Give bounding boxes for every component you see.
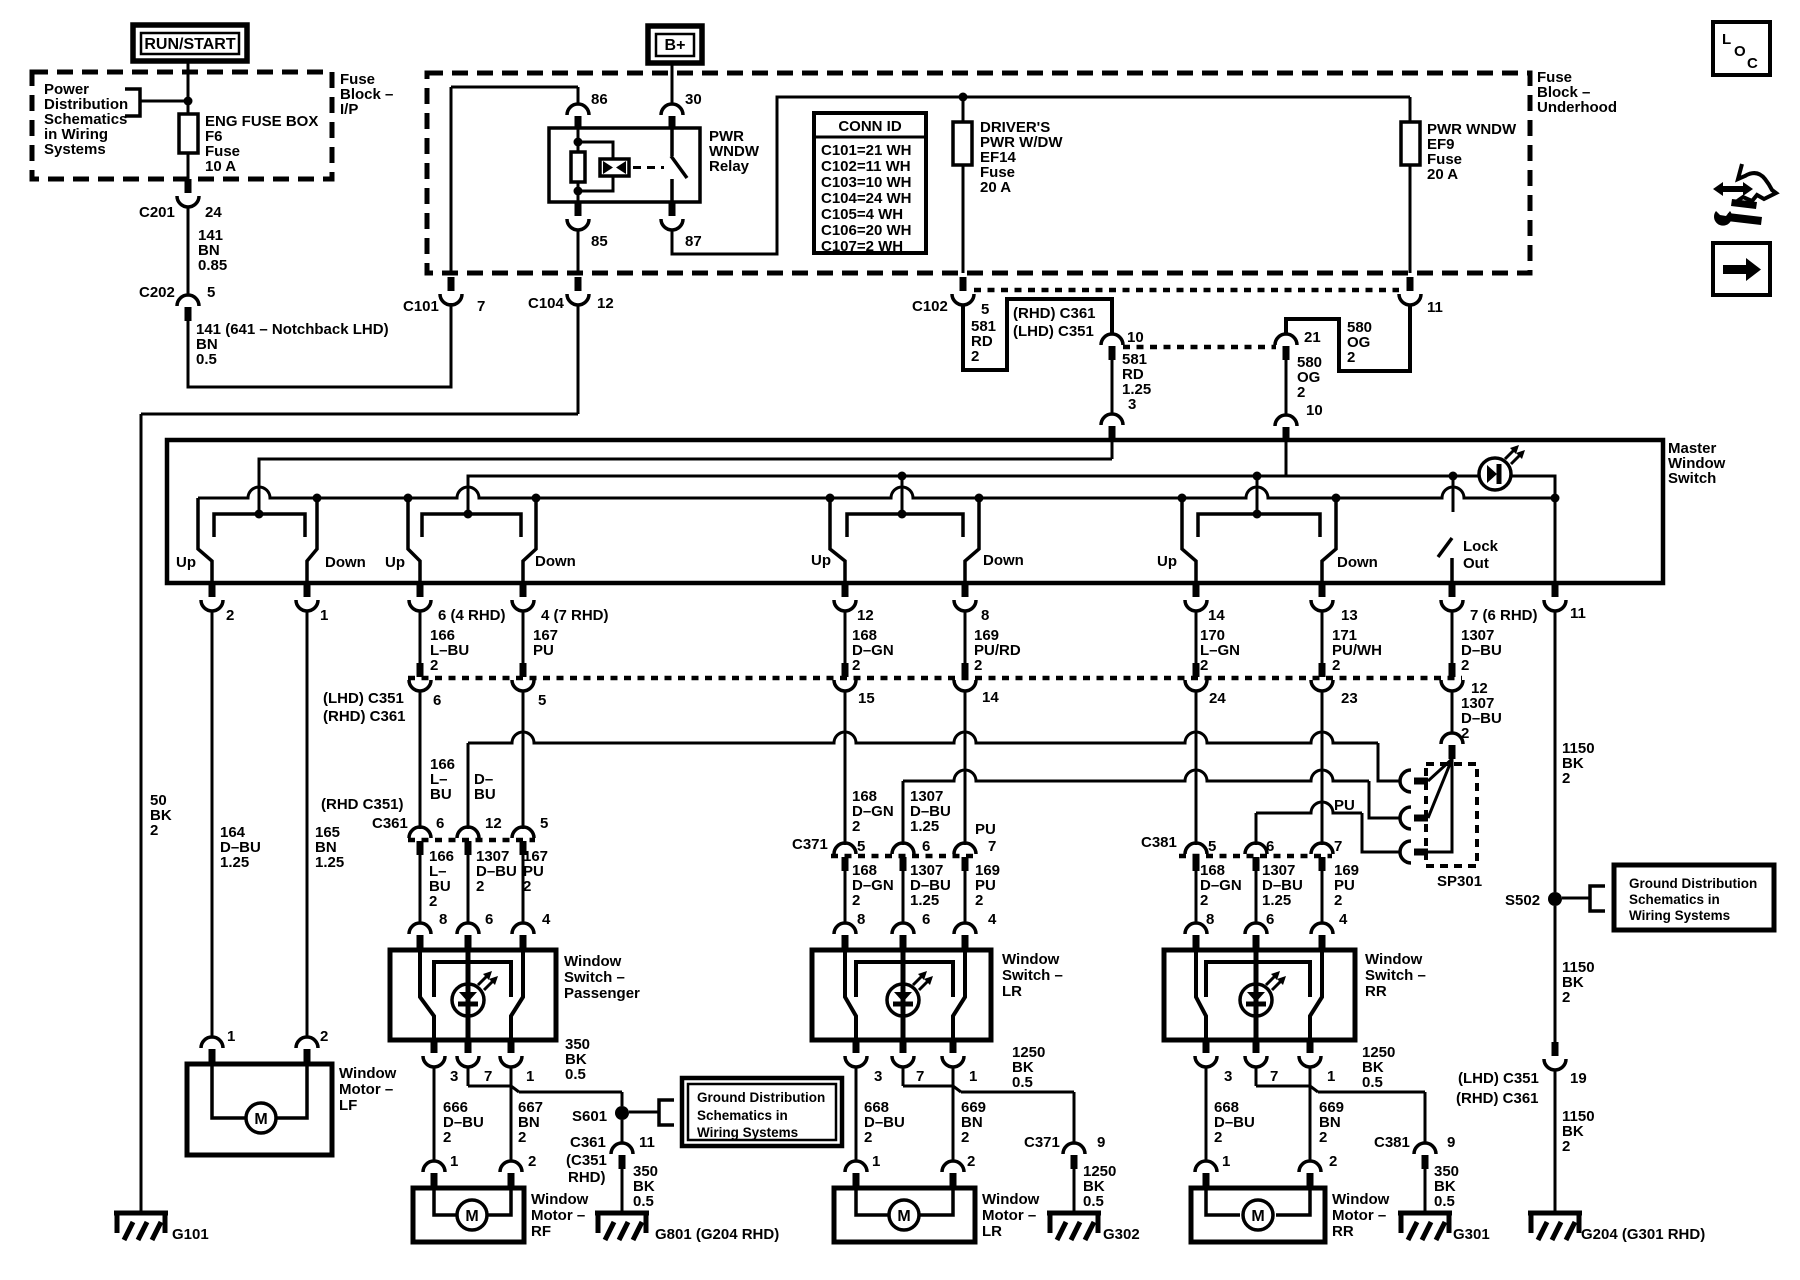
- svg-text:C105=4 WH: C105=4 WH: [821, 206, 903, 223]
- svg-text:Motor –: Motor –: [339, 1081, 393, 1098]
- master switch pin 14 connector: [1193, 583, 1200, 597]
- svg-text:C361: C361: [570, 1134, 606, 1151]
- wire 169 PU/RD 2: [964, 611, 967, 663]
- svg-text:2: 2: [150, 822, 158, 839]
- window switch RR entry pin 6: [1245, 923, 1267, 934]
- svg-text:0.5: 0.5: [1362, 1074, 1383, 1091]
- svg-text:C107=2 WH: C107=2 WH: [821, 238, 903, 255]
- svg-text:LR: LR: [982, 1223, 1002, 1240]
- RR switch pin 1 connector: [1307, 1040, 1314, 1053]
- svg-text:Schematics in: Schematics in: [1629, 892, 1720, 907]
- svg-text:14: 14: [1208, 607, 1225, 624]
- svg-text:C102: C102: [912, 298, 948, 315]
- svg-text:(RHD C351): (RHD C351): [321, 796, 404, 813]
- svg-text:Window: Window: [339, 1065, 397, 1082]
- svg-text:3: 3: [1128, 396, 1136, 413]
- svg-text:C381: C381: [1374, 1134, 1410, 1151]
- svg-text:Window: Window: [564, 953, 622, 970]
- wire 169 PU 2 to LR pin 4: [964, 871, 967, 924]
- svg-text:7: 7: [1334, 838, 1342, 855]
- master switch pin 6 connector: [417, 583, 424, 597]
- svg-text:21: 21: [1304, 329, 1321, 346]
- svg-text:11: 11: [1570, 605, 1586, 622]
- fuse F6 10A: [179, 114, 198, 153]
- window motor LR entry pin 1: [845, 1161, 867, 1172]
- svg-text:2: 2: [226, 607, 234, 624]
- window switch - LR: [812, 950, 991, 1040]
- svg-text:Motor –: Motor –: [1332, 1207, 1386, 1224]
- svg-text:0.5: 0.5: [1012, 1074, 1033, 1091]
- wire EF14 to C102: [962, 165, 965, 273]
- svg-text:2: 2: [1332, 657, 1340, 674]
- wire relay pin 85 to C104: [577, 230, 580, 273]
- relay coil resistor: [571, 152, 585, 182]
- wire 1250 BK 0.5 from RR pin 7: [1255, 1067, 1258, 1086]
- svg-text:0.5: 0.5: [1434, 1193, 1455, 1210]
- svg-text:1.25: 1.25: [1122, 381, 1151, 398]
- svg-text:1: 1: [227, 1028, 235, 1045]
- connector C201 pin 24: [185, 179, 192, 193]
- note box ground distribution S601: [682, 1078, 842, 1146]
- passenger switch pin 1 connector: [508, 1040, 515, 1053]
- svg-text:6: 6: [922, 911, 930, 928]
- svg-text:2: 2: [852, 657, 860, 674]
- switch 2 feed and contact bar: [467, 476, 470, 514]
- lock out switch: [1452, 476, 1455, 512]
- svg-text:BU: BU: [474, 786, 496, 803]
- power source tag B+: [648, 26, 702, 63]
- switch 3 Down blade: [965, 498, 979, 583]
- svg-text:L: L: [1722, 31, 1731, 48]
- svg-text:M: M: [465, 1208, 478, 1225]
- reference bracket to note: [125, 89, 140, 116]
- in-line connector dotted line C102 row: [974, 288, 1399, 293]
- svg-text:12: 12: [857, 607, 874, 624]
- svg-text:2: 2: [1319, 1129, 1327, 1146]
- svg-text:2: 2: [864, 1129, 872, 1146]
- svg-text:2: 2: [961, 1129, 969, 1146]
- svg-text:Window: Window: [1332, 1191, 1390, 1208]
- master window switch box: [167, 440, 1663, 583]
- CONN ID table: [814, 113, 926, 253]
- relay PWR WNDW Relay box: [549, 128, 700, 202]
- svg-text:B+: B+: [665, 37, 686, 54]
- svg-text:C381: C381: [1141, 834, 1177, 851]
- svg-text:23: 23: [1341, 690, 1358, 707]
- window motor RR entry pin 2: [1299, 1161, 1321, 1172]
- relay actuator dashed link: [633, 166, 664, 169]
- icon LOC box: [1713, 22, 1770, 75]
- svg-text:4: 4: [988, 911, 997, 928]
- svg-text:6: 6: [922, 838, 930, 855]
- bus line A inside master switch: [259, 459, 1112, 514]
- switch 4 Up blade: [1182, 498, 1196, 583]
- switch 3 feed and contact bar: [901, 476, 904, 514]
- svg-text:20 A: 20 A: [980, 179, 1011, 196]
- svg-text:(LHD) C351: (LHD) C351: [323, 690, 404, 707]
- svg-text:C202: C202: [139, 284, 175, 301]
- icon adjust wrench: [1713, 182, 1753, 196]
- ground G302: [1047, 1211, 1101, 1216]
- wire 350 BK 0.5 to G801: [621, 1169, 624, 1213]
- svg-text:RHD): RHD): [568, 1169, 606, 1186]
- window motor LF entry pin 1: [201, 1037, 223, 1048]
- svg-text:2: 2: [320, 1028, 328, 1045]
- svg-text:2: 2: [1214, 1129, 1222, 1146]
- svg-text:1.25: 1.25: [910, 892, 939, 909]
- cross wire L3 PU to SP301: [1256, 802, 1362, 813]
- switch 2 Down blade: [523, 498, 536, 583]
- svg-text:24: 24: [1209, 690, 1226, 707]
- svg-text:(RHD) C361: (RHD) C361: [1013, 305, 1096, 322]
- svg-text:2: 2: [852, 892, 860, 909]
- note box ground distribution S502: [1614, 865, 1774, 930]
- connector C381 pin 9: [1414, 1143, 1436, 1154]
- svg-text:7: 7: [916, 1068, 924, 1085]
- relay pin 86 connector: [567, 104, 589, 115]
- svg-text:13: 13: [1341, 607, 1358, 624]
- svg-text:Wiring Systems: Wiring Systems: [697, 1125, 798, 1140]
- wire 1307 D-BU 2 upper: [1451, 611, 1454, 663]
- svg-text:10: 10: [1127, 329, 1144, 346]
- window motor LR entry pin 2: [942, 1161, 964, 1172]
- svg-text:Motor –: Motor –: [531, 1207, 585, 1224]
- window motor LF entry pin 2: [296, 1037, 318, 1048]
- window switch passenger entry pin 6: [409, 923, 431, 934]
- wire 1250 BK 0.5 from LR pin 7: [902, 1067, 905, 1086]
- svg-text:Ground Distribution: Ground Distribution: [1629, 876, 1757, 891]
- svg-text:7: 7: [477, 298, 485, 315]
- svg-text:4 (7 RHD): 4 (7 RHD): [541, 607, 609, 624]
- relay pin 30 connector: [661, 104, 683, 115]
- window switch LR entry pin 8: [834, 923, 856, 934]
- svg-text:8: 8: [857, 911, 865, 928]
- svg-text:C201: C201: [139, 204, 175, 221]
- svg-text:15: 15: [858, 690, 875, 707]
- svg-text:85: 85: [591, 233, 608, 250]
- fuse block I/P dashed box: [32, 72, 332, 179]
- ground G801: [595, 1211, 649, 1216]
- svg-text:11: 11: [1427, 299, 1443, 316]
- svg-text:BU: BU: [430, 786, 452, 803]
- svg-text:C: C: [1747, 55, 1758, 72]
- svg-text:9: 9: [1447, 1134, 1455, 1151]
- window motor - RR: [1191, 1188, 1325, 1242]
- svg-text:C104=24 WH: C104=24 WH: [821, 190, 911, 207]
- RR switch pin 3 connector: [1203, 1040, 1210, 1053]
- svg-text:C361: C361: [372, 815, 408, 832]
- svg-text:2: 2: [1334, 892, 1342, 909]
- svg-text:Ground Distribution: Ground Distribution: [697, 1090, 825, 1105]
- wire relay pin 87 to fuses bus: [672, 97, 1410, 254]
- master switch pin 12 connector: [842, 583, 849, 597]
- connector pin 3 into master switch: [1101, 414, 1123, 425]
- svg-text:1.25: 1.25: [315, 854, 344, 871]
- svg-text:7: 7: [1270, 1068, 1278, 1085]
- svg-text:O: O: [1734, 43, 1746, 60]
- wire 168 D-GN 2: [844, 611, 847, 663]
- svg-text:PU: PU: [1334, 797, 1355, 814]
- C381 connector pin 6: [1245, 843, 1267, 854]
- svg-text:6 (4 RHD): 6 (4 RHD): [438, 607, 506, 624]
- wire 669 BN 2 RR: [1309, 1067, 1312, 1162]
- wire 581 RD 2 from C102: [963, 299, 1112, 370]
- svg-text:Up: Up: [385, 554, 405, 571]
- svg-text:7: 7: [484, 1068, 492, 1085]
- cross wire L2 to SP301: [903, 770, 1369, 781]
- C351 connector pin 12: [1449, 663, 1456, 677]
- svg-text:1.25: 1.25: [910, 818, 939, 835]
- svg-text:C101: C101: [403, 298, 439, 315]
- svg-text:C103=10 WH: C103=10 WH: [821, 174, 911, 191]
- connector C381 dashed line: [1179, 854, 1332, 859]
- svg-text:CONN ID: CONN ID: [838, 118, 902, 135]
- svg-text:Underhood: Underhood: [1537, 99, 1617, 116]
- svg-text:Systems: Systems: [44, 141, 106, 158]
- connector C361/C351 pin 10 left: [1101, 334, 1123, 345]
- junction node in I/P box: [184, 97, 193, 106]
- svg-text:C102=11 WH: C102=11 WH: [821, 158, 911, 175]
- svg-text:0.5: 0.5: [633, 1193, 654, 1210]
- wire 165 BN 1.25: [306, 611, 309, 1036]
- svg-text:2: 2: [1562, 770, 1570, 787]
- svg-text:Window: Window: [982, 1191, 1040, 1208]
- svg-text:S601: S601: [572, 1108, 607, 1125]
- svg-text:Schematics in: Schematics in: [697, 1108, 788, 1123]
- svg-text:30: 30: [685, 91, 702, 108]
- connector C351/C361 pin 19: [1552, 1042, 1559, 1056]
- wire 141 (641 - Notchback LHD) BN 0.5: [188, 303, 451, 387]
- connector pin 10 into master switch: [1275, 415, 1297, 426]
- svg-text:RR: RR: [1332, 1223, 1354, 1240]
- svg-text:M: M: [897, 1208, 910, 1225]
- wire RUN/START to fuse F6: [187, 61, 190, 114]
- svg-text:1: 1: [450, 1153, 458, 1170]
- window motor - LF: [187, 1064, 332, 1155]
- window motor - LR: [834, 1188, 975, 1242]
- svg-text:6: 6: [436, 815, 444, 832]
- svg-text:1: 1: [526, 1068, 534, 1085]
- svg-text:C101=21 WH: C101=21 WH: [821, 142, 911, 159]
- svg-text:6: 6: [433, 692, 441, 709]
- svg-text:Window: Window: [1002, 951, 1060, 968]
- wire 167 PU: [522, 611, 525, 663]
- svg-text:10: 10: [1306, 402, 1323, 419]
- wire 168 D-GN 2 to LR pin 8: [844, 871, 847, 924]
- svg-text:87: 87: [685, 233, 702, 250]
- relay coil branch wire: [577, 128, 580, 152]
- C351 connector pin 5: [520, 663, 527, 677]
- master switch pin 7 connector: [1449, 583, 1456, 597]
- svg-text:4: 4: [1339, 911, 1348, 928]
- svg-text:12: 12: [485, 815, 502, 832]
- svg-text:RR: RR: [1365, 983, 1387, 1000]
- svg-text:Relay: Relay: [709, 158, 750, 175]
- wire 669 BN 2 LR: [952, 1067, 955, 1162]
- C351 connector pin 24: [1193, 663, 1200, 677]
- wire 667 BN 2: [510, 1067, 513, 1162]
- wire relay pin 86 to C101: [577, 87, 580, 104]
- LR switch pin 1 connector: [950, 1040, 957, 1053]
- svg-text:Down: Down: [983, 552, 1024, 569]
- master switch pin 11 connector: [1552, 583, 1559, 597]
- wire 167 PU 2 lower: [522, 855, 525, 924]
- reference bracket S601: [659, 1100, 674, 1125]
- svg-text:2: 2: [1562, 989, 1570, 1006]
- svg-text:2: 2: [443, 1129, 451, 1146]
- svg-text:5: 5: [981, 301, 989, 318]
- svg-text:RUN/START: RUN/START: [144, 36, 235, 53]
- connector C101 pin 7: [448, 277, 455, 291]
- C351 connector pin 14: [962, 663, 969, 677]
- wire C104 to ground run: [577, 305, 580, 414]
- window motor RF entry pin 1: [423, 1161, 445, 1172]
- svg-text:2: 2: [1297, 384, 1305, 401]
- wire 1307 D-BU 1.25 to LR pin 6: [902, 871, 905, 924]
- connector C202 pin 5: [177, 295, 199, 306]
- svg-text:5: 5: [857, 838, 865, 855]
- svg-text:(RHD) C361: (RHD) C361: [323, 708, 406, 725]
- svg-text:Out: Out: [1463, 555, 1489, 572]
- RR switch pin 7 connector: [1253, 1040, 1260, 1053]
- connector C371 pin 9: [1063, 1143, 1085, 1154]
- wire 166 L-BU 2: [419, 611, 422, 663]
- wire 1307 D-BU 2 to splice: [1451, 691, 1454, 733]
- wire F6 to C201: [187, 153, 190, 179]
- svg-text:86: 86: [591, 91, 608, 108]
- window motor RF entry pin 2: [500, 1161, 522, 1172]
- second connector pin 5: [512, 827, 534, 838]
- wire 171 PU/WH mid segment: [1321, 691, 1324, 845]
- wire 1307 D-BU 1.25 drop to C371: [902, 781, 905, 845]
- svg-text:(C351: (C351: [566, 1152, 607, 1169]
- svg-text:14: 14: [982, 689, 999, 706]
- svg-text:Passenger: Passenger: [564, 985, 640, 1002]
- wire 168 D-GN 2 mid segment: [844, 691, 847, 845]
- master switch pin 13 connector: [1319, 583, 1326, 597]
- svg-text:2: 2: [430, 657, 438, 674]
- wire 581 RD 1.25 pin 3: [1111, 360, 1114, 414]
- relay switch contact: [670, 128, 674, 156]
- svg-text:C104: C104: [528, 295, 565, 312]
- svg-text:Down: Down: [535, 553, 576, 570]
- C351 connector pin 23: [1319, 663, 1326, 677]
- C371 connector pin 6: [892, 843, 914, 854]
- wire 1307 D-BU 2 to passenger: [467, 855, 470, 924]
- svg-text:Switch –: Switch –: [1002, 967, 1063, 984]
- wire 166 L-BU segment: [419, 691, 422, 829]
- svg-text:G302: G302: [1103, 1226, 1140, 1243]
- svg-text:I/P: I/P: [340, 101, 358, 118]
- wire 50 BK 2 to G101: [140, 414, 143, 1213]
- switch 1 Up blade: [198, 498, 212, 583]
- svg-text:SP301: SP301: [1437, 873, 1482, 890]
- svg-text:(LHD) C351: (LHD) C351: [1458, 1070, 1539, 1087]
- connector C104 pin 12: [575, 277, 582, 291]
- wire 164 D-BU 1.25: [211, 611, 214, 1036]
- wire 141 BN 0.85: [187, 207, 190, 295]
- ground G101: [114, 1211, 168, 1216]
- svg-text:Lock: Lock: [1463, 538, 1499, 555]
- svg-text:2: 2: [967, 1153, 975, 1170]
- switch 2 Up blade: [408, 498, 420, 583]
- window switch RR entry pin 8: [1185, 923, 1207, 934]
- svg-text:24: 24: [205, 204, 222, 221]
- svg-text:5: 5: [538, 692, 546, 709]
- C371 connector pin 7: [954, 843, 976, 854]
- svg-text:Up: Up: [176, 554, 196, 571]
- C371 connector pin 5: [834, 843, 856, 854]
- svg-text:20 A: 20 A: [1427, 166, 1458, 183]
- svg-text:2: 2: [1329, 1153, 1337, 1170]
- crossbar junction dots: [313, 494, 322, 503]
- bus line B inside master switch: [468, 476, 1480, 514]
- fuse block underhood dashed box: [427, 73, 1530, 273]
- svg-text:C106=20 WH: C106=20 WH: [821, 222, 911, 239]
- svg-text:0.5: 0.5: [1083, 1193, 1104, 1210]
- svg-text:1: 1: [1222, 1153, 1230, 1170]
- svg-text:2: 2: [528, 1153, 536, 1170]
- svg-text:RF: RF: [531, 1223, 551, 1240]
- svg-text:6: 6: [1266, 911, 1274, 928]
- LR switch pin 7 connector: [900, 1040, 907, 1053]
- window switch RR entry pin 4: [1311, 923, 1333, 934]
- svg-text:2: 2: [476, 878, 484, 895]
- svg-text:2: 2: [518, 1129, 526, 1146]
- C381 connector pin 5: [1185, 843, 1207, 854]
- wire 171 PU/WH 2: [1321, 611, 1324, 663]
- svg-text:0.85: 0.85: [198, 257, 227, 274]
- svg-text:2: 2: [971, 348, 979, 365]
- svg-text:M: M: [254, 1111, 267, 1128]
- window switch LR entry pin 6: [892, 923, 914, 934]
- svg-text:0.5: 0.5: [565, 1066, 586, 1083]
- master switch pin 1 connector: [304, 583, 311, 597]
- passenger switch pin 3 connector: [431, 1040, 438, 1053]
- svg-text:0.5: 0.5: [196, 351, 217, 368]
- switch 1 Down blade: [307, 498, 317, 583]
- svg-text:S502: S502: [1505, 892, 1540, 909]
- reference bracket S502: [1590, 886, 1605, 911]
- svg-text:2: 2: [523, 878, 531, 895]
- svg-text:Switch –: Switch –: [564, 969, 625, 986]
- cross wire L1 to SP301: [468, 732, 1378, 743]
- svg-text:G301: G301: [1453, 1226, 1490, 1243]
- master switch pin 2 connector: [209, 583, 216, 597]
- svg-text:1: 1: [320, 607, 328, 624]
- LR switch pin 3 connector: [853, 1040, 860, 1053]
- svg-text:6: 6: [485, 911, 493, 928]
- window switch - RR: [1164, 950, 1355, 1040]
- second connector pin 12: [457, 827, 479, 838]
- wire 666 D-BU 2: [433, 1067, 436, 1162]
- svg-text:C371: C371: [1024, 1134, 1060, 1151]
- ground G301: [1398, 1211, 1452, 1216]
- svg-text:10 A: 10 A: [205, 158, 236, 175]
- svg-text:8: 8: [981, 607, 989, 624]
- wire 580 OG 2 from pin 11: [1286, 305, 1410, 371]
- ground G204: [1528, 1211, 1582, 1216]
- master switch pin 4 connector: [520, 583, 527, 597]
- connector C102 pin 5: [960, 277, 967, 291]
- wire 167 PU segment: [522, 691, 525, 829]
- wire 166 L-BU 2 lower: [419, 855, 422, 924]
- svg-text:2: 2: [974, 657, 982, 674]
- passenger switch pin 7 connector: [465, 1040, 472, 1053]
- svg-text:12: 12: [597, 295, 614, 312]
- fuse EF9 PWR WNDW 20A: [1409, 97, 1412, 122]
- svg-text:1: 1: [969, 1068, 977, 1085]
